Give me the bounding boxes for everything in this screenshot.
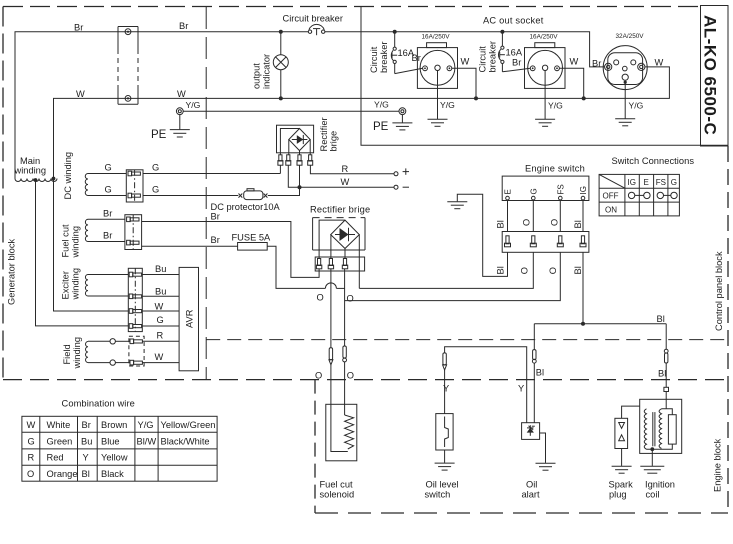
DC protector F1 [211,189,281,212]
ground oil alert [536,463,556,470]
svg-text:Main: Main [20,156,40,166]
main winding L1 [15,177,57,182]
pin block B2 [315,257,364,271]
svg-text:Br: Br [412,53,421,63]
terminal minus [341,177,410,189]
junction node pin3-W [298,185,302,189]
svg-text:Field: Field [62,344,72,364]
AC socket X1 16A/250V [417,34,469,89]
ground engine switch E [447,202,467,209]
wire main winding tap G to AVR [36,180,129,326]
pin lug B2-2 [328,259,333,269]
ground oil level switch [435,450,455,470]
pin lug B2-3 [342,259,347,269]
svg-text:O: O [27,469,34,479]
svg-text:O: O [520,267,530,274]
svg-text:brige: brige [329,131,339,152]
svg-text:W: W [655,58,664,68]
control panel solid boundary [361,7,728,145]
svg-text:Ignition: Ignition [645,480,675,490]
svg-text:Orange: Orange [47,469,78,479]
AVR U1 [179,267,198,370]
svg-text:W: W [570,57,579,67]
svg-text:solenoid: solenoid [320,490,355,500]
svg-text:Yellow/Green: Yellow/Green [161,420,216,430]
wire hop over pin2 [325,283,336,289]
svg-text:Bl: Bl [573,220,583,228]
svg-text:E: E [504,189,513,194]
wire W1 to AVR [142,310,179,312]
svg-text:G: G [529,188,538,194]
svg-text:PE: PE [151,129,167,141]
svg-text:O: O [315,371,322,381]
svg-text:Bl: Bl [82,469,90,479]
svg-text:AVR: AVR [185,309,195,328]
wire Br fuelcut bottom left [88,241,125,243]
AC socket X2 16A/250V [525,34,579,89]
svg-text:Br: Br [179,21,188,31]
svg-text:White: White [47,420,71,430]
connector CN6 [502,232,589,253]
connector CN5 dashed enclosure [129,336,144,366]
rectifier brige B1 [277,117,339,155]
wire pin1 down [279,165,281,173]
fuse F2 5A [232,233,272,251]
wire main winding tap W to AVR [54,179,129,312]
svg-text:Bl: Bl [658,368,666,378]
wire fuse to O net [267,246,325,288]
connector CN2 [126,170,143,202]
pin lug B2-1 [316,259,321,269]
svg-text:Blue: Blue [101,436,120,446]
svg-text:Br: Br [103,231,112,241]
svg-text:Y: Y [83,453,89,463]
svg-text:Oil: Oil [526,480,537,490]
svg-text:DC winding: DC winding [63,152,73,200]
AL-KO 6500-C title box [701,6,729,147]
svg-text:Bl: Bl [573,266,583,274]
junction node Br-CB2 [500,30,504,34]
svg-text:IG: IG [579,186,588,194]
svg-text:breaker: breaker [379,41,389,73]
wire FS switch to connector [559,200,561,232]
svg-text:Y/G: Y/G [629,101,644,111]
pin lug B1-4 [308,155,313,165]
svg-text:Br: Br [74,23,83,33]
svg-text:DC protector10A: DC protector10A [211,202,281,212]
output indicator lamp [252,32,289,99]
svg-text:IG: IG [628,178,636,187]
spark plug E1 [609,418,634,499]
svg-text:Bl: Bl [657,314,665,324]
svg-text:W: W [27,420,36,430]
wire O pin3 down [344,269,346,346]
svg-text:Generator block: Generator block [7,239,17,305]
svg-text:Green: Green [47,436,73,446]
ignition coil T1 [640,399,682,499]
svg-text:W: W [155,301,164,311]
wire IG horizontal to oil alert and ignition [534,323,666,325]
svg-text:Engine block: Engine block [713,438,723,492]
svg-text:Combination wire: Combination wire [62,399,135,409]
svg-text:Rectifier brige: Rectifier brige [310,205,370,215]
svg-text:E: E [644,178,649,187]
svg-text:O: O [347,371,354,381]
connector tab ignition [664,387,669,391]
connector CN3 [125,215,142,250]
circuit breaker CB1 16A [369,32,423,74]
svg-text:Br: Br [82,420,91,430]
fuel cut winding L3 [61,219,89,258]
svg-text:Br: Br [512,58,521,68]
svg-text:ON: ON [605,206,617,215]
engine block dashed border bottom [315,512,728,514]
svg-text:Circuit: Circuit [369,46,379,73]
svg-text:plug: plug [609,490,627,500]
oil alert H1 [522,423,541,500]
svg-text:G: G [152,162,159,172]
ground spark plug [612,449,632,474]
svg-text:O: O [347,294,354,304]
wire G to DC protector [143,195,238,197]
wire O net G: rect2 right vertex to engine switch G [359,252,533,288]
svg-text:Bu: Bu [81,436,92,446]
TOPLEFT [14,14,670,326]
ground X3 earth pin [615,84,643,126]
outer dashed border right [727,146,729,513]
svg-text:G: G [28,436,35,446]
pin lug B1-1 [278,155,283,165]
wire Bl to ignition coil [665,324,667,350]
wire G DC bottom left [88,195,126,197]
svg-text:Bl/W: Bl/W [137,436,157,446]
svg-text:W: W [76,89,85,99]
wire W bus [54,67,670,179]
wire Bu to AVR [142,274,179,276]
wire R to AVR [142,340,179,342]
wire E to ground [457,194,507,276]
svg-text:Fuel cut: Fuel cut [61,224,71,257]
svg-text:O: O [548,267,558,274]
wire Y/G [183,110,399,112]
wire X1 W to bus [452,68,476,98]
svg-text:R: R [157,331,164,341]
wire O-right to solenoid [344,362,346,415]
outer dashed border left [2,7,4,380]
svg-text:16A: 16A [506,48,523,58]
wire O-left to solenoid [330,365,332,405]
field winding L5 [62,337,88,370]
svg-text:Bl: Bl [536,368,544,378]
svg-text:Fuel cut: Fuel cut [320,480,353,490]
svg-text:W: W [177,89,186,99]
exciter winding L4 [61,268,89,301]
connector lug O-left in band [329,348,333,365]
svg-text:G: G [152,184,159,194]
DC winding L2 [63,152,88,200]
svg-text:breaker: breaker [488,41,498,73]
circuit breaker CB2 16A [478,32,531,73]
svg-text:Br: Br [211,235,220,245]
dashed separator generator/control panel vertical [205,7,207,380]
svg-text:O: O [549,219,559,226]
terminal plus [342,164,410,176]
svg-text:output: output [252,63,262,89]
ground PE left [151,108,190,141]
MIDLEFT [61,117,410,370]
svg-text:Exciter: Exciter [61,271,71,299]
connector bullet W [110,360,142,365]
pin lug B1-2 [286,155,291,165]
svg-text:PE: PE [373,121,389,133]
wire protector to pin3 [268,165,300,195]
wire G switch to connector [532,200,534,232]
switch connections table [599,156,694,216]
wire Bu top [88,274,128,276]
svg-text:OFF: OFF [603,192,619,201]
svg-text:Red: Red [47,453,64,463]
svg-text:Engine switch: Engine switch [525,163,585,173]
connector lug Y in band [443,353,447,370]
junction node IG [581,322,585,326]
svg-text:Switch Connections: Switch Connections [612,156,695,166]
wire Br bus [15,32,308,179]
svg-text:O: O [317,293,324,303]
svg-text:G: G [671,178,677,187]
svg-text:Bu: Bu [155,287,166,297]
dashed separator control panel/engine horizontal [206,339,728,341]
wire hop to pin3 vertical [336,287,344,289]
svg-text:indicator: indicator [262,54,272,89]
svg-text:FS: FS [556,184,565,194]
svg-text:R: R [342,164,349,174]
outer dashed border top [3,6,701,8]
svg-text:winding: winding [72,337,82,370]
svg-text:G: G [105,184,112,194]
wire X2 W to bus [559,68,583,98]
engine block dashed border left [314,380,316,513]
connector bullet R [110,339,142,344]
BOTTOM [22,346,682,500]
svg-text:Bu: Bu [155,264,166,274]
svg-text:Brown: Brown [101,420,127,430]
svg-text:Br: Br [211,212,220,222]
wire Br to fuse [142,245,238,247]
svg-text:FUSE 5A: FUSE 5A [232,233,272,243]
connector CN1 [118,27,138,105]
svg-text:Circuit: Circuit [478,46,488,73]
svg-text:Black: Black [101,469,124,479]
ground X1 earth pin [428,71,456,127]
svg-text:Black/White: Black/White [161,436,210,446]
svg-text:Y/G: Y/G [440,100,455,110]
dashed border bottom of generator/control area [3,379,728,381]
wire Br fuelcut top left [88,218,125,220]
svg-text:W: W [341,177,350,187]
svg-text:Y/G: Y/G [138,420,154,430]
wire G DC top left [88,173,126,175]
engine switch S1 [502,163,589,200]
svg-text:Y: Y [443,383,449,393]
svg-text:winding: winding [71,268,81,301]
combination wire table [22,399,217,482]
wire G1 to AVR [142,325,179,327]
AC socket X3 32A/250V [592,33,664,90]
svg-text:Y/G: Y/G [374,100,389,110]
svg-text:Y: Y [518,383,524,393]
svg-text:coil: coil [646,490,660,500]
svg-text:FS: FS [656,178,666,187]
junction node X1-W [474,96,478,100]
svg-text:Bl: Bl [496,266,506,274]
wire E switch to connector [507,200,509,232]
wire Br bus right part [325,32,605,67]
svg-text:Y/G: Y/G [186,100,201,110]
wire Bl to oil alert [533,363,535,423]
wire IG down [582,252,584,323]
svg-text:G: G [105,162,112,172]
svg-text:Circuit breaker: Circuit breaker [283,14,343,24]
wire pin2 to minus [288,165,394,187]
svg-text:Spark: Spark [609,480,634,490]
svg-text:alart: alart [522,490,541,500]
wire Bl to oil alert [533,324,535,350]
wire Y to oil level switch [444,370,446,414]
svg-text:Oil level: Oil level [426,480,459,490]
wire IG switch to connector [582,200,584,232]
svg-text:Br: Br [592,59,601,69]
wire oil alert to ground [540,433,546,463]
svg-text:W: W [155,352,164,362]
wire R field top [88,340,110,342]
svg-text:Bl: Bl [496,220,506,228]
wire Bl to ignition coil [665,363,667,387]
svg-text:winding: winding [71,226,81,259]
svg-text:W: W [461,57,470,67]
wire Br to rect2 pin1 [142,222,320,278]
svg-text:switch: switch [425,490,451,500]
circuit breaker CB0 [283,14,343,36]
junction node Br-CB1 [393,30,397,34]
wire Bu bottom [88,295,128,297]
junction node Br-lamp [279,30,283,34]
wire O pin2 down to solenoid [330,269,332,348]
svg-text:O: O [522,219,532,226]
wire spark plug to coil [622,406,640,418]
wire W field bottom [88,362,110,364]
svg-text:R: R [28,453,35,463]
svg-text:AC out socket: AC out socket [483,16,544,26]
wire pin4 to plus [310,165,394,174]
rectifier brige B2 [310,205,370,289]
SOCKETS [369,16,664,127]
svg-text:Br: Br [103,209,112,219]
connector CN4 [128,268,142,331]
svg-text:16A/250V: 16A/250V [422,34,451,41]
svg-text:16A/250V: 16A/250V [530,34,559,41]
svg-text:Yellow: Yellow [101,453,128,463]
svg-text:G: G [157,315,164,325]
wire W2 to AVR [142,362,179,364]
oil level switch S2 [425,414,459,500]
svg-text:32A/250V: 32A/250V [616,33,645,40]
svg-text:AL-KO 6500-C: AL-KO 6500-C [701,15,720,135]
svg-text:Control panel block: Control panel block [714,251,724,331]
ground PE right [373,108,412,133]
pin lug B1-3 [297,155,302,165]
wire Y oil level net [445,347,527,423]
connector lug Bl oil alert in band [532,350,536,364]
wire tab to coil box [665,392,667,400]
ground X2 earth pin [535,71,563,127]
RIGHTMID [310,156,694,350]
connector lug Bl ignition in band [664,349,668,363]
wire G to rectifier pin1 [143,173,280,175]
connector lug O-right in band [343,346,347,362]
ground ignition coil [640,449,664,473]
svg-text:winding: winding [14,166,47,176]
fuel cut solenoid Y1 [320,404,357,499]
svg-text:Y/G: Y/G [548,101,563,111]
junction node W-lamp [279,96,283,100]
svg-text:Rectifier: Rectifier [319,117,329,151]
junction node X2-W [582,96,586,100]
wire Bu2 to AVR [142,295,179,297]
wire O net FS to engine switch [345,252,561,300]
